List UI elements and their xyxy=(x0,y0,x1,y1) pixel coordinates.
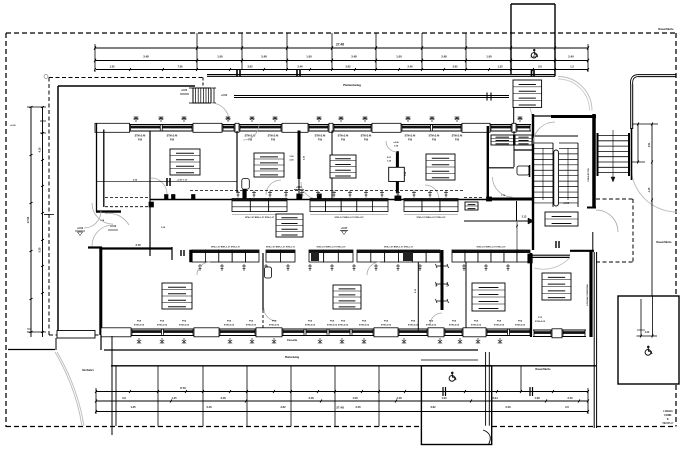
svg-text:Rasenfläche: Rasenfläche xyxy=(656,240,672,244)
partition wall x150 xyxy=(149,131,151,256)
svg-text:STM+2.46: STM+2.46 xyxy=(405,135,416,138)
svg-text:7.36: 7.36 xyxy=(177,65,183,69)
svg-text:P16: P16 xyxy=(170,140,175,142)
svg-text:STM+3.02: STM+3.02 xyxy=(359,325,370,327)
svg-text:1.00: 1.00 xyxy=(217,55,223,59)
stair arrow line xyxy=(542,148,544,200)
svg-text:3.48: 3.48 xyxy=(261,55,267,59)
svg-text:3.48: 3.48 xyxy=(220,396,226,400)
svg-text:2.46: 2.46 xyxy=(407,65,413,69)
exterior metal stair east xyxy=(597,133,599,176)
svg-text:+0.00: +0.00 xyxy=(563,202,570,205)
tick marks near west corridor xyxy=(180,250,182,256)
svg-text:STM+3.02: STM+3.02 xyxy=(157,325,168,327)
hooks in rooms above corridor north cabinets xyxy=(236,191,240,198)
svg-text:P16: P16 xyxy=(271,140,276,142)
svg-text:STM+1.07 BRH+1.07 STM+1.07: STM+1.07 BRH+1.07 STM+1.07 xyxy=(334,217,364,219)
building SW corner stub xyxy=(100,335,102,350)
svg-text:LOGGIA CONDIVISA: LOGGIA CONDIVISA xyxy=(586,284,589,306)
svg-text:0.9: 0.9 xyxy=(122,396,126,400)
svg-text:5.30: 5.30 xyxy=(39,247,42,252)
svg-text:+0.00 1.10: +0.00 1.10 xyxy=(177,180,188,182)
bottom rooms label boxes xyxy=(162,283,192,309)
stair handrail capsule xyxy=(554,150,559,206)
bold post marks on canopy line xyxy=(236,69,238,76)
right dimension vertical xyxy=(651,124,653,296)
bottom dimension extension verticals xyxy=(157,366,159,427)
bottom dimension chain lines xyxy=(96,391,588,393)
svg-text:2.46: 2.46 xyxy=(206,405,212,409)
left small bracket xyxy=(40,120,46,122)
svg-text:STM+2.46: STM+2.46 xyxy=(338,135,349,138)
north-west exterior wall segment xyxy=(58,85,195,87)
svg-text:P16: P16 xyxy=(341,140,346,142)
shaft box on wall x397 xyxy=(389,167,405,181)
svg-text:2.0: 2.0 xyxy=(538,65,542,69)
corridor ramp line with arrow xyxy=(464,220,534,222)
wheelchair bottom-right xyxy=(645,346,652,356)
inner plot boundary dashed xyxy=(49,77,203,79)
upper-left room dashed floor lines xyxy=(105,197,150,199)
left dimension vertical lines xyxy=(30,107,32,337)
wc label boxes xyxy=(491,135,514,145)
svg-text:STM+2.46: STM+2.46 xyxy=(429,135,440,138)
stair flight right treads xyxy=(559,142,578,144)
svg-text:STM+3.02: STM+3.02 xyxy=(471,325,482,327)
svg-text:STM+3.02: STM+3.02 xyxy=(246,325,257,327)
svg-text:3.62: 3.62 xyxy=(280,405,286,409)
garden fence vertical double line xyxy=(593,252,595,428)
corridor label box (Flur) xyxy=(276,214,303,237)
outer property boundary dashed xyxy=(6,32,676,34)
svg-text:P16: P16 xyxy=(248,140,253,142)
SE room east wall dark xyxy=(589,250,592,337)
svg-text:Plattenbelag: Plattenbelag xyxy=(285,356,300,359)
svg-text:STM+2.46: STM+2.46 xyxy=(135,135,146,138)
door arc room P09 xyxy=(493,177,513,197)
door ticks at SE room xyxy=(555,241,557,248)
svg-text:P16: P16 xyxy=(432,140,437,142)
svg-text:Rasenfläche: Rasenfläche xyxy=(535,367,551,371)
wc2 south wall xyxy=(514,149,532,151)
pergola south edge xyxy=(111,365,596,367)
svg-text:1.00: 1.00 xyxy=(441,396,447,400)
driveway gate arc (Einfahrt) xyxy=(57,352,84,426)
svg-text:+0.00: +0.00 xyxy=(221,94,228,97)
svg-text:LOGGIA: LOGGIA xyxy=(663,410,673,413)
svg-text:STM+2.46: STM+2.46 xyxy=(268,135,279,138)
svg-text:Cassetta: Cassetta xyxy=(287,339,298,342)
svg-text:P16: P16 xyxy=(408,140,413,142)
svg-text:+0.00: +0.00 xyxy=(77,227,84,230)
handrail stub wall east xyxy=(631,128,633,180)
svg-text:+6.05: +6.05 xyxy=(181,89,188,92)
svg-text:STM+2.46: STM+2.46 xyxy=(315,135,326,138)
svg-text:STM+1.07 BRH+1.07 STM+1.07: STM+1.07 BRH+1.07 STM+1.07 xyxy=(245,217,275,219)
svg-text:3.62: 3.62 xyxy=(345,65,351,69)
dashed line stair to boundary xyxy=(596,198,633,200)
corridor north wall xyxy=(150,199,487,201)
svg-text:+4.00: +4.00 xyxy=(393,141,399,144)
room label box upper-2 (P02) xyxy=(254,153,284,177)
bottom-left room west wall xyxy=(99,247,102,335)
svg-text:STM+2.46: STM+2.46 xyxy=(452,135,463,138)
canopy label box (ramp) xyxy=(513,80,542,107)
bottom room partitions xyxy=(262,253,264,310)
svg-text:STM+3.02: STM+3.02 xyxy=(224,325,235,327)
door arc at upper-left room exit xyxy=(105,213,129,225)
svg-text:+0.00: +0.00 xyxy=(10,125,16,127)
svg-text:STM+3.02: STM+3.02 xyxy=(535,321,546,323)
plants below south facade xyxy=(137,338,141,344)
svg-text:Einfahrt: Einfahrt xyxy=(82,368,93,372)
svg-text:STM+2.46: STM+2.46 xyxy=(361,135,372,138)
sink fixture at wall x237 xyxy=(242,179,250,190)
svg-text:3.48: 3.48 xyxy=(396,396,402,400)
svg-text:8.79: 8.79 xyxy=(180,386,186,390)
SE room label box (Aufenthaltsraum) xyxy=(542,273,571,300)
svg-text:1.35: 1.35 xyxy=(130,405,136,409)
svg-text:STM+3.02: STM+3.02 xyxy=(449,325,460,327)
railing double line at box right xyxy=(485,352,487,426)
corridor east end wall dark xyxy=(487,198,533,201)
stairwell label box xyxy=(545,212,578,226)
svg-text:1.00: 1.00 xyxy=(396,55,402,59)
top dimension ticks xyxy=(94,46,96,49)
corridor south cabinets row xyxy=(192,250,205,262)
svg-text:3.62: 3.62 xyxy=(452,65,458,69)
svg-text:2.46: 2.46 xyxy=(297,65,303,69)
svg-text:1.54: 1.54 xyxy=(648,142,651,147)
svg-text:2.40: 2.40 xyxy=(568,55,574,59)
gate swing arc right boundary xyxy=(631,166,677,212)
svg-text:2.04: 2.04 xyxy=(492,396,498,400)
svg-text:1.35: 1.35 xyxy=(109,65,115,69)
bottom-center protruding box xyxy=(421,366,491,445)
svg-text:3.48: 3.48 xyxy=(351,55,357,59)
svg-text:P16: P16 xyxy=(318,140,323,142)
svg-text:STM+1.07 BRH+1.07 STM+1.07: STM+1.07 BRH+1.07 STM+1.07 xyxy=(384,247,414,249)
bottom-left room north wall left stub xyxy=(88,246,102,248)
svg-text:STM+1.07 BRH+1.07 STM+1.07: STM+1.07 BRH+1.07 STM+1.07 xyxy=(316,247,346,249)
loggia dimension verticals xyxy=(640,299,642,336)
svg-text:2.46: 2.46 xyxy=(355,405,361,409)
svg-text:2.40: 2.40 xyxy=(567,396,573,400)
svg-text:2.46: 2.46 xyxy=(505,405,511,409)
hooks below corridor south cabinets xyxy=(198,264,202,271)
stair dimension bracket xyxy=(212,87,216,89)
room label box upper-4 (P05) xyxy=(426,154,455,180)
svg-text:502.87 m²: 502.87 m² xyxy=(663,421,674,425)
svg-text:Rasenfläche: Rasenfläche xyxy=(658,27,674,31)
svg-text:STM+1.07 BRH+1.07 STM+1.07: STM+1.07 BRH+1.07 STM+1.07 xyxy=(211,247,241,249)
entrance tower outline xyxy=(511,3,555,5)
bottom-right loggia box xyxy=(618,296,679,384)
upper room door arcs along corridor xyxy=(266,180,281,195)
svg-text:1.2: 1.2 xyxy=(570,65,574,69)
door jamb ticks on walkway xyxy=(486,93,488,101)
wc1 south wall xyxy=(488,167,514,169)
svg-text:STM+1.07 BRH+1.07 STM+1.07: STM+1.07 BRH+1.07 STM+1.07 xyxy=(416,217,446,219)
svg-text:STM+3.02: STM+3.02 xyxy=(179,325,190,327)
svg-text:STM+3.02: STM+3.02 xyxy=(327,325,338,327)
SE room north wall xyxy=(531,254,570,256)
roof canopy edge double line xyxy=(207,74,555,76)
room label box upper-3 (P03) xyxy=(330,155,356,178)
bottom-left room north wall xyxy=(100,247,172,249)
upper big room east wall x487 xyxy=(487,126,489,197)
svg-text:2.0: 2.0 xyxy=(565,405,569,409)
bottom dimension ticks xyxy=(95,390,97,393)
svg-text:1.00: 1.00 xyxy=(486,55,492,59)
wheelchair marks on dimension line xyxy=(442,387,444,396)
stairwell north wall band xyxy=(533,115,596,117)
tick on plot boundary xyxy=(44,214,54,216)
door jambs corridor west door xyxy=(165,195,169,200)
svg-text:STM+3.02: STM+3.02 xyxy=(494,325,505,327)
svg-text:1.35: 1.35 xyxy=(497,65,503,69)
svg-text:27.48: 27.48 xyxy=(336,43,344,47)
terrace slab edge line xyxy=(8,349,55,351)
door arc at entry stair xyxy=(211,103,229,121)
svg-text:S:: S: xyxy=(667,418,670,421)
svg-text:4.10: 4.10 xyxy=(39,147,42,152)
svg-text:1.00: 1.00 xyxy=(306,55,312,59)
door arc at wall x397 top xyxy=(386,141,397,152)
terrace double door arcs bottom-left xyxy=(92,203,113,224)
svg-text:STM+3.02: STM+3.02 xyxy=(338,325,349,327)
upper-left room south wall cap xyxy=(96,210,121,212)
svg-text:1.38: 1.38 xyxy=(534,396,540,400)
partition wall x332 xyxy=(331,131,333,200)
south facade window band xyxy=(101,328,531,330)
svg-text:STM+3.02: STM+3.02 xyxy=(408,325,419,327)
svg-text:3.13: 3.13 xyxy=(522,216,527,219)
elevator box xyxy=(465,202,478,210)
top dimension chain lines xyxy=(95,47,588,49)
exterior entry stair top-left hatched xyxy=(193,88,211,103)
svg-text:4.45: 4.45 xyxy=(648,187,651,192)
svg-text:P16: P16 xyxy=(455,140,460,142)
svg-text:+0.97: +0.97 xyxy=(341,226,348,230)
stair flight left treads xyxy=(533,142,553,144)
svg-text:STM+2.46: STM+2.46 xyxy=(167,135,178,138)
walkway edge under canopy xyxy=(234,95,509,97)
east facade door arcs near stair xyxy=(596,210,618,232)
survey circle at plot corner xyxy=(44,75,48,79)
hooks on wardrobe wall xyxy=(437,265,442,267)
svg-text:STM+3.02: STM+3.02 xyxy=(381,325,392,327)
dark partition wall x397 xyxy=(396,151,399,193)
svg-text:3.48: 3.48 xyxy=(308,396,314,400)
fence double line east xyxy=(593,80,595,428)
upper-left room west wall double line xyxy=(96,123,98,212)
wheelchair bottom-center xyxy=(449,372,456,382)
sink fixture at wall x263 xyxy=(265,267,272,278)
fence vertical by exterior stair xyxy=(630,84,632,129)
corridor dashed opening lines xyxy=(190,190,464,192)
dark wardrobe wall x442 xyxy=(441,250,444,310)
svg-text:STM+1.07 BRH+1.07 STM+1.07: STM+1.07 BRH+1.07 STM+1.07 xyxy=(266,247,296,249)
west exterior wall xyxy=(57,86,59,331)
room label box upper-left (P01) xyxy=(170,149,200,175)
svg-text:3.78: 3.78 xyxy=(135,243,141,247)
svg-text:STM+3.02: STM+3.02 xyxy=(426,325,437,327)
toilet fixture xyxy=(517,166,529,175)
corridor north cabinets row xyxy=(232,199,250,212)
small dimension bracket right of corridor end xyxy=(516,222,518,255)
svg-text:STAHLBETON: STAHLBETON xyxy=(587,168,590,182)
svg-text:1.45: 1.45 xyxy=(171,396,177,400)
dark cabinet cells xyxy=(403,252,413,261)
svg-text:17.93: 17.93 xyxy=(26,216,30,223)
interior dimension line room U1 xyxy=(96,181,237,183)
bottom room door arcs xyxy=(264,308,277,321)
SE room west wall xyxy=(530,253,532,337)
svg-text:2.20: 2.20 xyxy=(645,332,650,334)
svg-text:COND.: COND. xyxy=(664,414,672,417)
left gate post xyxy=(55,338,57,350)
east exterior wall upper x533 xyxy=(532,114,534,250)
partition wall x237 xyxy=(236,131,238,192)
svg-text:STM+3.02: STM+3.02 xyxy=(269,325,280,327)
SE room door arc xyxy=(534,257,570,269)
fence top right double line xyxy=(638,74,676,76)
small wc partition x514 xyxy=(513,131,515,167)
stair landing top xyxy=(533,135,578,137)
southwest porch box xyxy=(57,331,95,339)
svg-text:STM+3.02: STM+3.02 xyxy=(515,325,526,327)
svg-text:P16: P16 xyxy=(364,140,369,142)
gate swing arc at canopy right xyxy=(558,77,592,111)
svg-text:P16: P16 xyxy=(138,140,143,142)
svg-text:3.48: 3.48 xyxy=(143,55,149,59)
svg-text:1.00: 1.00 xyxy=(352,396,358,400)
north facade window band xyxy=(95,124,531,126)
top dimension extension verticals xyxy=(196,33,198,70)
entry hall dark spine wall xyxy=(298,131,301,180)
svg-text:3.62: 3.62 xyxy=(247,65,253,69)
driveway post line xyxy=(111,336,113,435)
svg-text:STM+3.02: STM+3.02 xyxy=(134,325,145,327)
SE room south window band xyxy=(533,329,586,331)
left dimension ticks xyxy=(29,106,32,108)
svg-text:3.62: 3.62 xyxy=(430,405,436,409)
door arc into room U1 xyxy=(151,178,167,195)
wheelchair symbol at canopy xyxy=(531,49,537,58)
svg-text:STM+3.02: STM+3.02 xyxy=(305,325,316,327)
plants along north facade xyxy=(133,116,138,122)
svg-text:Plattenbelag: Plattenbelag xyxy=(343,83,361,87)
svg-text:3.48: 3.48 xyxy=(441,55,447,59)
svg-text:STM+1.07 BRH+1.07 STM+1.07: STM+1.07 BRH+1.07 STM+1.07 xyxy=(476,247,506,249)
stair block C-wall dark xyxy=(551,115,596,118)
svg-text:27.48: 27.48 xyxy=(336,406,344,410)
